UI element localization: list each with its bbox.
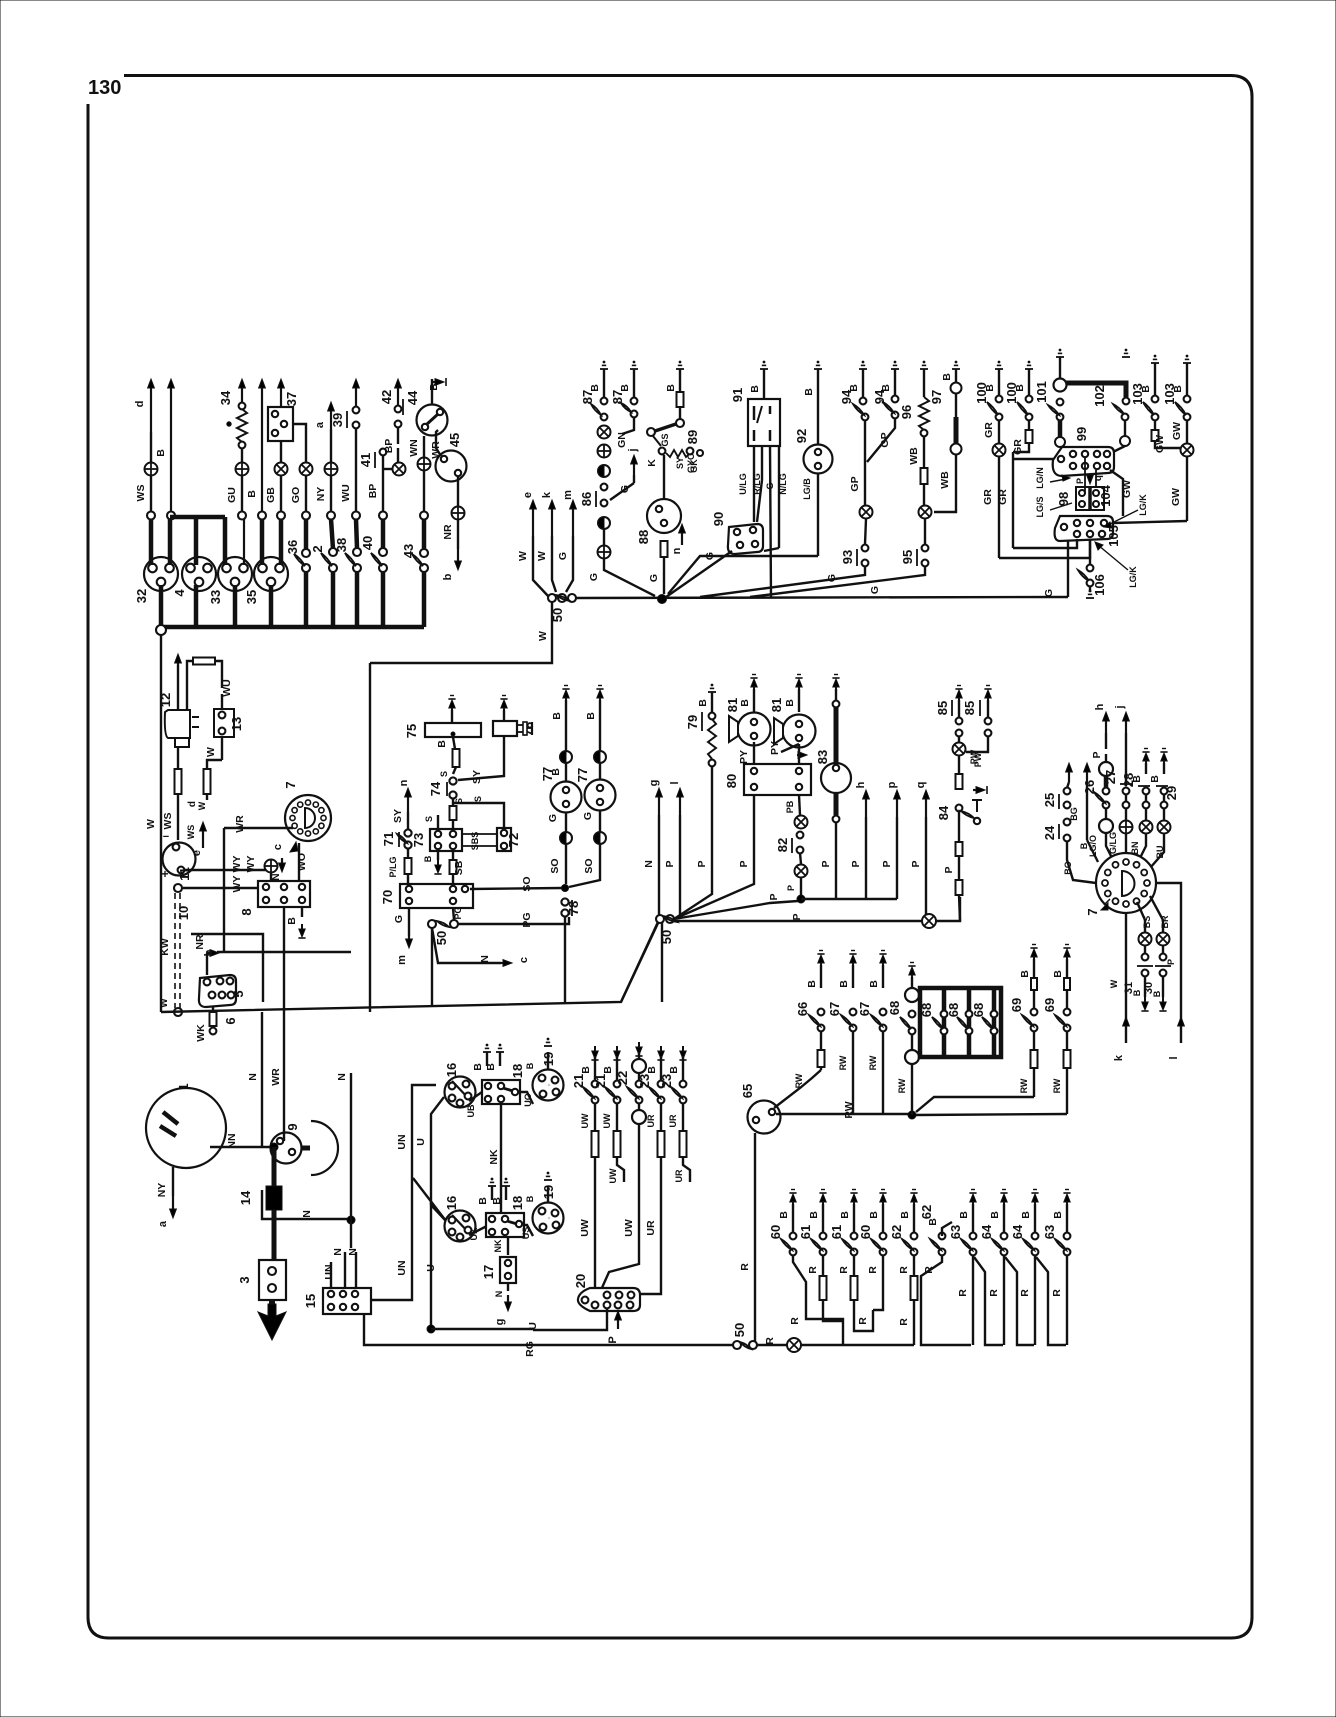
svg-text:a: a — [314, 421, 326, 428]
svg-text:B: B — [485, 1063, 497, 1071]
svg-text:50: 50 — [434, 931, 449, 945]
svg-text:j: j — [627, 448, 639, 452]
lamp chain 23 first — [658, 1051, 664, 1059]
lamp PW — [953, 743, 966, 756]
svg-text:B: B — [697, 699, 709, 707]
switch 106 with ground — [1089, 541, 1091, 564]
lamp chain 87 — [630, 368, 638, 370]
svg-text:69: 69 — [1009, 998, 1024, 1012]
connector 73 — [430, 829, 462, 851]
switch 2 — [331, 519, 333, 549]
switch chain 100 second — [1025, 368, 1033, 370]
svg-text:P: P — [1091, 751, 1103, 758]
svg-text:GR: GR — [983, 422, 995, 438]
svg-text:NY: NY — [315, 487, 327, 502]
svg-text:B: B — [246, 490, 258, 498]
wire down from 50 mid — [661, 923, 663, 1002]
svg-text:18: 18 — [510, 1196, 525, 1210]
wire NK between 18s — [500, 1102, 502, 1222]
lamp on R bus — [787, 1338, 801, 1352]
svg-text:GS: GS — [660, 433, 670, 446]
svg-text:21: 21 — [593, 1074, 608, 1088]
fan wires from 50 mid — [674, 880, 712, 919]
svg-text:81: 81 — [769, 698, 784, 712]
svg-text:NK: NK — [488, 1149, 500, 1165]
svg-text:B: B — [1052, 1211, 1064, 1219]
svg-text:87: 87 — [610, 390, 625, 404]
svg-text:B: B — [580, 1066, 592, 1074]
switch 89 — [647, 428, 655, 436]
svg-text:q: q — [915, 782, 927, 789]
svg-text:20: 20 — [573, 1274, 588, 1288]
wire G arrow m — [408, 908, 410, 936]
svg-text:K: K — [646, 459, 658, 467]
svg-text:103: 103 — [1162, 383, 1177, 405]
svg-text:105: 105 — [1106, 525, 1121, 547]
svg-text:P: P — [786, 885, 796, 891]
svg-text:d: d — [134, 401, 146, 408]
svg-text:k: k — [541, 491, 553, 498]
wire RW right from 65 — [776, 1113, 910, 1115]
svg-text:B: B — [1149, 775, 1161, 783]
svg-text:63: 63 — [1042, 1225, 1057, 1239]
svg-text:W: W — [145, 819, 157, 829]
svg-text:104: 104 — [1098, 484, 1113, 506]
svg-text:c: c — [518, 957, 530, 963]
svg-text:GW: GW — [1154, 435, 1166, 453]
svg-text:c: c — [272, 844, 284, 850]
lamp chain 61 first — [819, 1192, 826, 1194]
svg-text:NN: NN — [226, 1133, 238, 1148]
svg-text:m: m — [396, 955, 408, 965]
arrow j right — [1125, 716, 1127, 733]
svg-text:R: R — [1051, 1289, 1063, 1297]
connector ring GB — [277, 512, 285, 520]
wire U into 20 — [533, 1309, 607, 1330]
arrow n — [681, 528, 683, 545]
svg-text:B: B — [428, 383, 440, 391]
svg-text:WB: WB — [908, 447, 920, 465]
connector 104 — [1090, 487, 1104, 510]
svg-text:S: S — [424, 816, 434, 822]
svg-text:30: 30 — [1143, 982, 1155, 994]
svg-text:UR: UR — [646, 1114, 656, 1127]
wire S to 72 — [453, 803, 504, 828]
arrow h — [865, 794, 867, 817]
svg-text:P: P — [881, 860, 893, 867]
svg-text:B: B — [784, 699, 796, 707]
svg-text:P: P — [820, 860, 832, 867]
wire P to l arrow — [1156, 883, 1181, 1043]
svg-text:B: B — [668, 1066, 680, 1074]
svg-text:GR: GR — [997, 489, 1009, 505]
svg-text:38: 38 — [334, 538, 349, 552]
svg-text:R: R — [857, 1317, 869, 1325]
svg-text:P: P — [664, 860, 676, 867]
svg-text:R: R — [789, 1317, 801, 1325]
wire PG junction 50 left — [453, 908, 454, 920]
svg-text:S: S — [439, 771, 449, 777]
svg-text:70: 70 — [380, 890, 395, 904]
svg-text:BR: BR — [1160, 915, 1170, 928]
resistor chain 84 down — [956, 842, 963, 856]
svg-text:B: B — [1019, 970, 1031, 978]
wire P from 80 — [753, 795, 755, 880]
wire from 65 down to 50 — [754, 1133, 756, 1341]
junction dot G — [658, 595, 667, 604]
resistor K GS GYO — [659, 448, 666, 455]
svg-text:WY: WY — [231, 876, 243, 893]
svg-text:99: 99 — [1074, 427, 1089, 441]
svg-text:R: R — [838, 1266, 850, 1274]
svg-text:GO: GO — [290, 487, 302, 503]
switch 42 and lamp BP — [397, 383, 399, 406]
resistor 96 — [920, 368, 928, 370]
wire G bus right from 50 — [576, 597, 1068, 598]
starter switch 3 — [259, 1260, 286, 1300]
svg-text:NR: NR — [194, 934, 206, 950]
wire N arrow c — [432, 928, 501, 963]
svg-text:12: 12 — [158, 693, 173, 707]
wire S from 73 top left — [437, 815, 439, 829]
svg-text:R/LG: R/LG — [752, 473, 762, 495]
svg-text:64: 64 — [1010, 1224, 1025, 1239]
bulb connector 4 — [182, 557, 216, 591]
svg-text:h: h — [855, 781, 867, 788]
wire N down to connector 15 — [350, 1073, 352, 1220]
connector ring GU — [238, 512, 246, 520]
svg-text:80: 80 — [724, 774, 739, 788]
wire NK to 17 — [507, 1237, 509, 1255]
svg-text:B: B — [423, 855, 433, 862]
svg-text:m: m — [562, 490, 574, 500]
svg-text:G: G — [393, 915, 405, 923]
svg-text:BP: BP — [367, 484, 379, 499]
svg-text:P: P — [791, 913, 803, 920]
svg-text:G: G — [582, 812, 594, 820]
svg-text:R: R — [898, 1266, 910, 1274]
svg-text:P: P — [1166, 959, 1176, 965]
svg-text:R: R — [739, 1263, 751, 1271]
fuse 6 — [212, 1007, 214, 1012]
connector 17 — [500, 1257, 516, 1283]
lamp chain 97 — [952, 368, 960, 370]
arrow symbol right of 84 — [973, 789, 981, 791]
chain 29 BU — [1160, 751, 1167, 753]
connector 74 — [449, 777, 456, 784]
svg-text:B: B — [286, 917, 298, 925]
svg-text:R: R — [1019, 1289, 1031, 1297]
svg-text:60: 60 — [768, 1225, 783, 1239]
chains 24 25 BO BG — [1068, 767, 1070, 782]
svg-text:N: N — [271, 873, 282, 880]
lamp chain 67 second — [879, 953, 886, 955]
svg-text:97: 97 — [929, 390, 944, 404]
junction dot P — [797, 895, 805, 903]
arrows g l from 50 mid — [658, 792, 660, 815]
svg-text:WY: WY — [245, 856, 257, 873]
wire W down from cluster to k — [1125, 913, 1127, 1043]
svg-text:SY: SY — [392, 809, 404, 823]
svg-text:77: 77 — [540, 767, 555, 781]
svg-text:GK: GK — [689, 459, 699, 473]
svg-text:P/LG: P/LG — [388, 856, 398, 877]
svg-text:4: 4 — [172, 589, 187, 597]
svg-text:BU: BU — [1155, 846, 1165, 859]
svg-text:GB: GB — [265, 487, 277, 503]
svg-text:43: 43 — [401, 544, 416, 558]
svg-text:GW: GW — [1170, 488, 1182, 506]
svg-text:WB: WB — [939, 471, 951, 489]
svg-text:B: B — [739, 699, 751, 707]
svg-text:88: 88 — [636, 530, 651, 544]
svg-text:13: 13 — [229, 717, 244, 731]
thick wire 101 to 102 — [1066, 383, 1126, 397]
svg-text:63: 63 — [948, 1225, 963, 1239]
arrow h right — [1105, 716, 1107, 733]
svg-text:81: 81 — [725, 698, 740, 712]
chain 27 G/LG — [1123, 788, 1130, 795]
svg-text:B: B — [525, 1062, 535, 1069]
wire from 99 to 98 — [1084, 457, 1086, 493]
svg-text:18: 18 — [510, 1064, 525, 1078]
wire WR to instrument 7 — [224, 827, 293, 829]
wire R right from 50 — [757, 1344, 787, 1346]
wire U from 15 area — [371, 1291, 412, 1300]
svg-text:B: B — [155, 449, 167, 457]
svg-text:WR: WR — [270, 1068, 282, 1086]
svg-text:B: B — [941, 373, 953, 381]
svg-text:BO: BO — [1063, 861, 1073, 875]
svg-text:B: B — [803, 388, 815, 396]
svg-text:27: 27 — [1103, 770, 1118, 784]
svg-text:25: 25 — [1042, 793, 1057, 807]
svg-text:85: 85 — [962, 701, 977, 715]
svg-text:g: g — [648, 780, 660, 787]
lamp chain 62 first — [910, 1192, 917, 1194]
svg-text:68: 68 — [919, 1003, 934, 1017]
lamp chain 23 second — [680, 1051, 686, 1059]
svg-text:p: p — [886, 781, 898, 788]
svg-text:P: P — [738, 860, 750, 867]
svg-text:100: 100 — [1004, 382, 1019, 404]
svg-text:B: B — [551, 712, 563, 720]
page border frame — [88, 76, 1252, 1639]
lamp chain 103 second — [1183, 362, 1191, 364]
wire SY from 76 — [458, 736, 504, 780]
svg-text:44: 44 — [405, 390, 420, 405]
svg-text:PY: PY — [769, 741, 781, 755]
lamp chain 67 first — [849, 953, 856, 955]
connector 72 — [497, 828, 511, 851]
svg-text:WS: WS — [135, 485, 147, 502]
wire W down from 50 — [370, 602, 552, 663]
lamp chain 82 — [795, 816, 808, 829]
svg-text:G: G — [588, 573, 600, 581]
wire N vertical from above — [261, 1012, 263, 1147]
svg-text:RW: RW — [868, 1055, 878, 1070]
svg-text:WN: WN — [408, 439, 420, 457]
svg-text:33: 33 — [208, 590, 223, 604]
svg-text:NR: NR — [442, 524, 454, 540]
svg-text:B: B — [927, 1218, 939, 1226]
svg-text:W: W — [205, 747, 217, 757]
fusebox 8 — [258, 881, 310, 907]
svg-text:P: P — [943, 866, 955, 873]
lamp chain 101 — [1056, 356, 1064, 358]
wire from relay 37 to GO lamp — [293, 424, 306, 463]
svg-text:N: N — [494, 1291, 504, 1298]
svg-text:P: P — [910, 860, 922, 867]
svg-text:UW: UW — [602, 1113, 612, 1128]
svg-text:15: 15 — [303, 1294, 318, 1308]
lamp chain 77 first — [562, 688, 569, 690]
svg-text:PY: PY — [738, 750, 750, 764]
dashed wire KW 10 — [174, 884, 182, 892]
svg-text:N: N — [336, 1073, 348, 1081]
svg-text:106: 106 — [1092, 574, 1107, 596]
wire U vertical — [431, 1205, 446, 1329]
connector 78 — [561, 898, 568, 905]
svg-text:B: B — [585, 712, 597, 720]
svg-text:RW: RW — [1019, 1078, 1029, 1093]
svg-text:96: 96 — [899, 405, 914, 419]
svg-text:G: G — [765, 482, 775, 489]
svg-text:BG: BG — [1069, 807, 1079, 821]
svg-text:l: l — [669, 781, 681, 784]
svg-text:78: 78 — [566, 901, 581, 915]
svg-text:q: q — [1093, 475, 1104, 481]
svg-text:R: R — [988, 1289, 1000, 1297]
connector 15 — [323, 1288, 371, 1314]
svg-text:37: 37 — [284, 392, 299, 406]
svg-text:W: W — [159, 998, 170, 1008]
svg-text:G: G — [557, 552, 569, 560]
svg-text:UW: UW — [580, 1113, 590, 1128]
svg-text:+: + — [161, 867, 168, 881]
wires SBS 73 to 72 — [462, 833, 497, 835]
switch 94 second — [891, 368, 899, 370]
wire routing rectangle left — [191, 934, 263, 1002]
starter arrow — [269, 1300, 275, 1322]
svg-text:WK: WK — [195, 1024, 207, 1042]
svg-text:3: 3 — [237, 1276, 252, 1283]
wire RG from 15 — [364, 1314, 736, 1345]
svg-text:B: B — [958, 1211, 970, 1219]
svg-text:PW: PW — [973, 752, 983, 767]
wires GR into 105 — [1013, 539, 1077, 548]
wire PG to 78 — [458, 917, 569, 924]
arrow P into 20 — [617, 1315, 619, 1329]
svg-text:R: R — [807, 1266, 819, 1274]
svg-text:SBS: SBS — [470, 832, 480, 851]
wire RW up to heated window 68 — [911, 1064, 913, 1115]
svg-text:79: 79 — [685, 715, 700, 729]
svg-text:90: 90 — [711, 512, 726, 526]
lamp chain 64 first — [1000, 1192, 1007, 1194]
lamp chain 103 first — [1151, 362, 1159, 364]
resistor P/LG — [407, 848, 409, 858]
svg-text:73: 73 — [411, 833, 426, 847]
svg-text:102: 102 — [1092, 385, 1107, 407]
svg-text:34: 34 — [218, 390, 233, 405]
svg-text:G: G — [869, 586, 881, 594]
svg-text:RW: RW — [1052, 1078, 1062, 1093]
svg-text:50: 50 — [732, 1323, 747, 1337]
svg-text:R: R — [764, 1337, 776, 1345]
svg-text:S: S — [473, 796, 483, 802]
svg-text:62: 62 — [919, 1205, 934, 1219]
svg-text:40: 40 — [360, 536, 375, 550]
svg-text:77: 77 — [575, 768, 590, 782]
junction dot at coil — [270, 1143, 278, 1151]
svg-text:k: k — [1113, 1054, 1125, 1061]
svg-text:GU: GU — [226, 487, 238, 503]
junction dot RW — [908, 1111, 916, 1119]
svg-text:WY: WY — [231, 856, 243, 873]
resistor WS branch — [175, 769, 182, 794]
svg-text:85: 85 — [935, 701, 950, 715]
thick wires rings to connectors — [149, 519, 154, 565]
svg-text:LG/N: LG/N — [1035, 467, 1045, 489]
svg-text:B: B — [749, 385, 761, 393]
svg-text:10: 10 — [176, 906, 191, 920]
svg-text:29: 29 — [1164, 786, 1179, 800]
wire WY left of 8 — [183, 887, 258, 889]
chain BR 30 — [1150, 896, 1163, 932]
svg-text:SY: SY — [675, 457, 685, 469]
svg-text:j: j — [1114, 705, 1126, 709]
wire NY column a — [330, 406, 332, 429]
connector ring B2 — [258, 512, 266, 520]
svg-text:LG/B: LG/B — [802, 478, 812, 500]
lamp chain 22 — [636, 1047, 642, 1055]
svg-text:B: B — [899, 1211, 911, 1219]
svg-text:69: 69 — [1042, 998, 1057, 1012]
svg-text:UR: UR — [674, 1169, 684, 1182]
svg-text:39: 39 — [330, 413, 345, 427]
arrow e — [202, 826, 204, 848]
junction dot U — [427, 1325, 435, 1333]
svg-text:B: B — [1079, 842, 1089, 849]
svg-text:61: 61 — [829, 1225, 844, 1239]
svg-text:42: 42 — [379, 390, 394, 404]
svg-text:h: h — [1094, 703, 1106, 710]
svg-text:G/LG: G/LG — [1108, 832, 1118, 854]
svg-text:PG: PG — [453, 906, 463, 919]
wire RW from 65 up to 66 — [774, 1070, 821, 1108]
svg-text:B: B — [1052, 970, 1064, 978]
svg-text:PB: PB — [785, 800, 795, 813]
svg-text:GN: GN — [616, 432, 628, 448]
junction ring 50-left — [156, 625, 166, 635]
ground arrow B below 8 — [301, 907, 303, 917]
svg-text:B: B — [808, 1211, 820, 1219]
svg-text:NY: NY — [156, 1183, 168, 1198]
svg-text:WS: WS — [186, 825, 196, 840]
resistor e branch — [204, 769, 211, 794]
svg-text:22: 22 — [615, 1071, 630, 1085]
svg-text:17: 17 — [481, 1265, 496, 1279]
svg-text:W: W — [517, 551, 529, 561]
lamp chain 21 second — [614, 1051, 620, 1059]
connector ring WU — [352, 512, 360, 520]
switch 94 first — [859, 368, 867, 370]
svg-text:82: 82 — [775, 838, 790, 852]
svg-text:PG: PG — [521, 912, 533, 927]
svg-text:SO: SO — [549, 858, 561, 873]
svg-text:R: R — [957, 1289, 969, 1297]
